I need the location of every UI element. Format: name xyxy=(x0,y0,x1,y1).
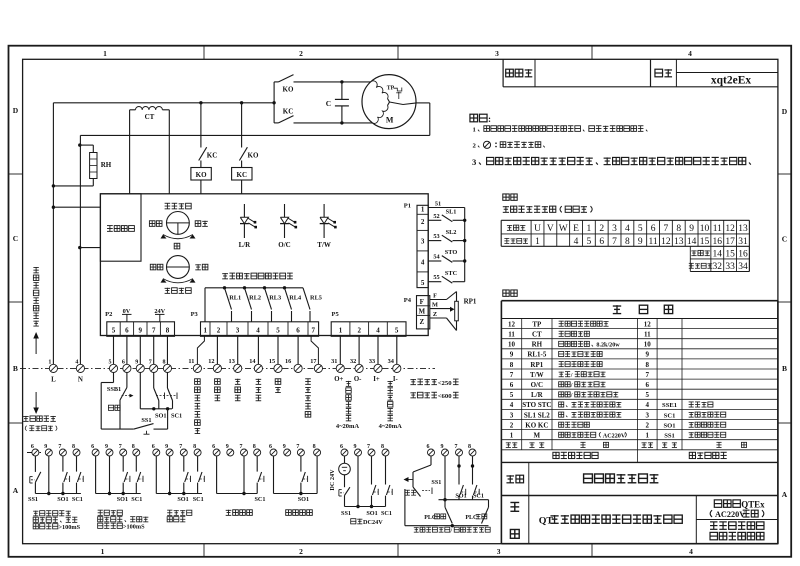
svg-text:6: 6 xyxy=(296,326,300,334)
svg-text:O/C: O/C xyxy=(278,241,290,249)
svg-text:C: C xyxy=(782,234,787,243)
svg-text:T/W: T/W xyxy=(530,371,544,379)
svg-text:RL1-5: RL1-5 xyxy=(527,351,547,359)
svg-text:5: 5 xyxy=(421,279,425,287)
svg-text:8: 8 xyxy=(646,361,650,369)
svg-text:1: 1 xyxy=(101,547,105,556)
svg-text:12: 12 xyxy=(644,320,652,328)
svg-text:9: 9 xyxy=(105,444,108,450)
svg-text:54: 54 xyxy=(433,254,440,261)
svg-text:9: 9 xyxy=(638,237,643,247)
svg-text:3: 3 xyxy=(472,157,477,167)
svg-text:8: 8 xyxy=(381,444,384,450)
svg-text:7: 7 xyxy=(240,444,243,450)
svg-text:DC 24V: DC 24V xyxy=(329,469,336,491)
svg-text:5: 5 xyxy=(112,326,116,334)
svg-text:C: C xyxy=(13,234,18,243)
svg-text:7: 7 xyxy=(664,224,669,234)
svg-text:9: 9 xyxy=(226,444,229,450)
svg-text:TP: TP xyxy=(532,320,542,328)
svg-text:O+: O+ xyxy=(334,376,343,383)
svg-text:51: 51 xyxy=(435,201,441,208)
svg-text:10: 10 xyxy=(508,341,516,349)
svg-text:6: 6 xyxy=(212,444,215,450)
svg-text:5: 5 xyxy=(587,237,592,247)
svg-text:SC1: SC1 xyxy=(664,412,676,419)
svg-text:11: 11 xyxy=(713,224,722,234)
svg-text:2: 2 xyxy=(510,421,514,429)
svg-text:7: 7 xyxy=(119,444,122,450)
svg-text:33: 33 xyxy=(725,262,735,272)
svg-text:8: 8 xyxy=(313,444,316,450)
svg-text:11: 11 xyxy=(188,358,194,365)
svg-text:52: 52 xyxy=(433,213,439,220)
svg-text:/: / xyxy=(570,383,573,389)
svg-text:5: 5 xyxy=(638,224,643,234)
svg-text:/: / xyxy=(570,393,573,399)
svg-text:L/R: L/R xyxy=(531,391,544,399)
svg-text:STO STC: STO STC xyxy=(522,401,551,409)
svg-text:53: 53 xyxy=(433,233,439,240)
svg-text:>100mS: >100mS xyxy=(59,524,81,531)
svg-text:7: 7 xyxy=(296,444,299,450)
svg-text:M: M xyxy=(386,116,394,125)
svg-text:KO: KO xyxy=(248,152,259,160)
svg-text:10: 10 xyxy=(644,341,652,349)
svg-text:RH: RH xyxy=(101,161,112,169)
svg-text:A: A xyxy=(13,486,19,495)
svg-text:4: 4 xyxy=(75,360,78,366)
svg-text:P4: P4 xyxy=(404,297,412,304)
svg-text:8: 8 xyxy=(132,444,135,450)
svg-text:7: 7 xyxy=(646,371,650,379)
svg-text:9: 9 xyxy=(646,351,650,359)
svg-text:14: 14 xyxy=(249,358,256,365)
svg-text:RL1: RL1 xyxy=(229,294,241,301)
svg-text:B: B xyxy=(13,364,18,373)
svg-text:7: 7 xyxy=(58,444,61,450)
svg-text:SC1: SC1 xyxy=(254,496,265,503)
svg-text:SS1: SS1 xyxy=(28,496,38,503)
svg-text:SO1: SO1 xyxy=(455,493,466,500)
svg-text:11: 11 xyxy=(508,330,515,338)
svg-text:1: 1 xyxy=(646,431,650,439)
svg-text:12: 12 xyxy=(725,224,735,234)
svg-text:RP1: RP1 xyxy=(530,361,543,369)
svg-text:3: 3 xyxy=(236,326,240,334)
svg-text:Z: Z xyxy=(433,311,437,318)
svg-text:1: 1 xyxy=(510,431,514,439)
svg-text:2: 2 xyxy=(421,218,425,226)
svg-text:14: 14 xyxy=(713,249,723,259)
svg-text:6: 6 xyxy=(510,381,514,389)
svg-text:1: 1 xyxy=(421,206,425,214)
svg-text:SC1: SC1 xyxy=(171,413,182,420)
svg-text::: : xyxy=(488,114,491,124)
svg-text:15: 15 xyxy=(269,358,275,365)
svg-text:9: 9 xyxy=(139,326,143,334)
svg-text:2: 2 xyxy=(299,49,303,58)
svg-text:6: 6 xyxy=(91,444,94,450)
svg-text:O-: O- xyxy=(354,376,362,383)
svg-text:>100mS: >100mS xyxy=(123,524,145,531)
svg-text:7: 7 xyxy=(367,444,370,450)
svg-text:A: A xyxy=(782,490,788,499)
svg-text:12: 12 xyxy=(208,358,214,365)
svg-text:Z: Z xyxy=(419,318,424,326)
svg-text:M: M xyxy=(418,307,425,315)
svg-text:6: 6 xyxy=(427,444,430,450)
svg-text:4: 4 xyxy=(510,401,514,409)
svg-text:1: 1 xyxy=(48,360,51,366)
svg-text:I+: I+ xyxy=(373,376,380,383)
svg-text:SC1: SC1 xyxy=(381,510,392,517)
svg-text:0V: 0V xyxy=(123,308,131,315)
svg-text:9: 9 xyxy=(44,444,47,450)
svg-text:3: 3 xyxy=(612,224,617,234)
svg-text:7: 7 xyxy=(612,237,617,247)
svg-text:4: 4 xyxy=(625,224,630,234)
svg-text:4: 4 xyxy=(574,237,579,247)
svg-text:RL5: RL5 xyxy=(310,294,322,301)
svg-text:5: 5 xyxy=(510,391,514,399)
svg-text:12: 12 xyxy=(508,320,516,328)
svg-text:4: 4 xyxy=(688,49,692,58)
svg-text:8: 8 xyxy=(625,237,630,247)
svg-text:SSE1: SSE1 xyxy=(662,402,677,409)
svg-text:O/C: O/C xyxy=(531,381,543,389)
svg-text:QT: QT xyxy=(539,516,554,527)
svg-text:2: 2 xyxy=(358,326,362,334)
svg-text:1: 1 xyxy=(535,237,540,247)
svg-text:33: 33 xyxy=(369,358,375,365)
svg-text:7: 7 xyxy=(312,326,316,334)
svg-text:KC: KC xyxy=(283,108,294,116)
svg-text:2: 2 xyxy=(217,326,221,334)
svg-text:17: 17 xyxy=(310,358,316,365)
svg-text:SC1: SC1 xyxy=(473,493,484,500)
svg-text:4: 4 xyxy=(646,401,650,409)
svg-text:7: 7 xyxy=(179,444,182,450)
svg-text:6: 6 xyxy=(651,224,656,234)
svg-text:2: 2 xyxy=(646,421,650,429)
svg-text:RL4: RL4 xyxy=(289,294,302,301)
svg-text:32: 32 xyxy=(350,358,356,365)
svg-text:KC: KC xyxy=(207,152,218,160)
svg-text:8: 8 xyxy=(166,326,170,334)
svg-text:M: M xyxy=(534,431,541,439)
svg-text:12: 12 xyxy=(661,237,671,247)
svg-text:11: 11 xyxy=(649,237,658,247)
svg-text:8: 8 xyxy=(510,361,514,369)
svg-text:5: 5 xyxy=(646,391,650,399)
svg-text:16: 16 xyxy=(738,249,748,259)
svg-text:DC24V: DC24V xyxy=(363,519,383,526)
svg-text:32: 32 xyxy=(713,262,723,272)
svg-text:SC1: SC1 xyxy=(193,496,204,503)
svg-text:C: C xyxy=(326,99,331,108)
svg-text:16: 16 xyxy=(285,358,291,365)
svg-text:13: 13 xyxy=(738,224,748,234)
svg-text:SL1 SL2: SL1 SL2 xyxy=(524,411,550,419)
svg-text:PLC: PLC xyxy=(465,515,477,521)
svg-text:3: 3 xyxy=(495,49,499,58)
svg-text:6: 6 xyxy=(152,444,155,450)
svg-text:34: 34 xyxy=(738,262,748,272)
svg-text:P2: P2 xyxy=(105,311,112,318)
svg-text:9: 9 xyxy=(165,444,168,450)
svg-text:CT: CT xyxy=(532,330,542,338)
svg-text:SO1: SO1 xyxy=(57,496,68,503)
svg-text:6: 6 xyxy=(340,444,343,450)
svg-text:8: 8 xyxy=(676,224,681,234)
svg-text:31: 31 xyxy=(331,358,337,365)
svg-text:5: 5 xyxy=(109,360,112,366)
svg-text:8: 8 xyxy=(162,360,165,366)
svg-text:9: 9 xyxy=(354,444,357,450)
svg-text:CT: CT xyxy=(145,113,155,121)
svg-text:RL3: RL3 xyxy=(269,294,281,301)
svg-text:N: N xyxy=(78,376,83,384)
svg-text:SO1: SO1 xyxy=(177,496,188,503)
svg-text:10: 10 xyxy=(700,224,710,234)
svg-text:8: 8 xyxy=(72,444,75,450)
svg-text:RP1: RP1 xyxy=(464,298,477,306)
svg-text:8: 8 xyxy=(253,444,256,450)
svg-text:M: M xyxy=(432,302,438,309)
svg-text:KC: KC xyxy=(237,171,248,179)
svg-text:9: 9 xyxy=(283,444,286,450)
svg-text:F: F xyxy=(433,293,437,300)
svg-text:34: 34 xyxy=(388,358,395,365)
svg-text:13: 13 xyxy=(674,237,684,247)
svg-text:1: 1 xyxy=(339,326,343,334)
svg-text:SSB1: SSB1 xyxy=(107,386,121,393)
svg-text:17: 17 xyxy=(725,237,735,247)
svg-text:1: 1 xyxy=(204,326,208,334)
svg-text:16: 16 xyxy=(713,237,723,247)
svg-text:SS1: SS1 xyxy=(664,432,675,439)
svg-text:B: B xyxy=(782,364,787,373)
svg-text:TP: TP xyxy=(387,86,395,92)
svg-text:T/W: T/W xyxy=(317,241,331,249)
svg-text:6: 6 xyxy=(125,326,129,334)
svg-text:SO1: SO1 xyxy=(366,510,377,517)
svg-text:5: 5 xyxy=(395,326,399,334)
svg-text:<250: <250 xyxy=(438,380,453,387)
svg-text:SL1: SL1 xyxy=(446,209,457,216)
svg-text:E: E xyxy=(573,224,579,234)
svg-text:7: 7 xyxy=(510,371,514,379)
svg-text:SS1: SS1 xyxy=(431,479,441,486)
svg-text:SC1: SC1 xyxy=(72,496,83,503)
svg-text:SO1: SO1 xyxy=(117,496,128,503)
svg-text:SS1: SS1 xyxy=(341,510,351,517)
svg-text:RL2: RL2 xyxy=(249,294,261,301)
svg-text:P1: P1 xyxy=(404,203,411,210)
svg-text:11: 11 xyxy=(644,330,651,338)
svg-text:4: 4 xyxy=(256,326,260,334)
svg-text:L: L xyxy=(51,376,56,384)
svg-text:STO: STO xyxy=(445,249,458,256)
svg-text:15: 15 xyxy=(725,249,735,259)
svg-text:3: 3 xyxy=(497,547,501,556)
svg-text:55: 55 xyxy=(433,274,439,281)
svg-text:SS1: SS1 xyxy=(141,417,151,424)
svg-text:7: 7 xyxy=(149,360,152,366)
svg-text:6: 6 xyxy=(269,444,272,450)
svg-text:24V: 24V xyxy=(154,308,165,315)
svg-text:8.2k/20w: 8.2k/20w xyxy=(596,343,620,349)
svg-text:9: 9 xyxy=(135,360,138,366)
svg-text:L/R: L/R xyxy=(239,241,252,249)
svg-text:P3: P3 xyxy=(191,311,199,318)
svg-text:8: 8 xyxy=(468,444,471,450)
svg-text:13: 13 xyxy=(229,358,235,365)
svg-text:KO: KO xyxy=(196,171,207,179)
svg-text:4: 4 xyxy=(421,259,425,267)
svg-text:6: 6 xyxy=(31,444,34,450)
svg-text:KO: KO xyxy=(283,86,294,94)
svg-text:6: 6 xyxy=(122,360,125,366)
svg-text:W: W xyxy=(559,224,568,234)
svg-text:U: U xyxy=(534,224,541,234)
svg-text:SO1: SO1 xyxy=(664,422,676,429)
svg-text:9: 9 xyxy=(689,224,694,234)
svg-text:AC220V: AC220V xyxy=(603,433,626,439)
svg-text:1: 1 xyxy=(103,49,107,58)
svg-text:<600: <600 xyxy=(438,393,453,400)
svg-text:3: 3 xyxy=(421,238,425,246)
svg-text:15: 15 xyxy=(700,237,710,247)
svg-text:2: 2 xyxy=(299,547,303,556)
svg-text:8: 8 xyxy=(193,444,196,450)
svg-text:SO1: SO1 xyxy=(155,413,167,420)
svg-text:V: V xyxy=(547,224,554,234)
svg-text:D: D xyxy=(13,106,19,115)
svg-text:3: 3 xyxy=(646,411,650,419)
svg-text:6: 6 xyxy=(599,237,604,247)
svg-text:4~20mA: 4~20mA xyxy=(379,423,403,430)
svg-text:/: / xyxy=(449,528,452,534)
svg-text:4: 4 xyxy=(689,547,693,556)
svg-text:9: 9 xyxy=(441,444,444,450)
svg-text:D: D xyxy=(782,107,788,116)
svg-text:QTEx: QTEx xyxy=(741,500,765,510)
svg-text:/: / xyxy=(570,373,573,379)
svg-text:7: 7 xyxy=(455,444,458,450)
svg-text:6: 6 xyxy=(646,381,650,389)
svg-text:4: 4 xyxy=(376,326,380,334)
svg-text:3: 3 xyxy=(510,411,514,419)
svg-text:7: 7 xyxy=(152,326,156,334)
svg-text:AC220V: AC220V xyxy=(715,510,745,519)
svg-text:2: 2 xyxy=(599,224,604,234)
svg-text:14: 14 xyxy=(687,237,697,247)
svg-text:RH: RH xyxy=(532,341,543,349)
svg-text:xqt2eEx: xqt2eEx xyxy=(711,75,752,87)
svg-text:SO1: SO1 xyxy=(298,496,309,503)
svg-text:SC1: SC1 xyxy=(131,496,142,503)
svg-text:P5: P5 xyxy=(331,311,339,318)
svg-text:5: 5 xyxy=(276,326,280,334)
svg-text:SL2: SL2 xyxy=(446,229,457,236)
svg-text:31: 31 xyxy=(738,237,748,247)
svg-text:9: 9 xyxy=(510,351,514,359)
svg-text:1: 1 xyxy=(587,224,592,234)
svg-text:KO KC: KO KC xyxy=(525,421,548,429)
svg-text:4~20mA: 4~20mA xyxy=(336,423,360,430)
svg-text:I-: I- xyxy=(393,376,399,383)
svg-text:STC: STC xyxy=(445,270,458,277)
svg-text:F: F xyxy=(420,298,424,306)
